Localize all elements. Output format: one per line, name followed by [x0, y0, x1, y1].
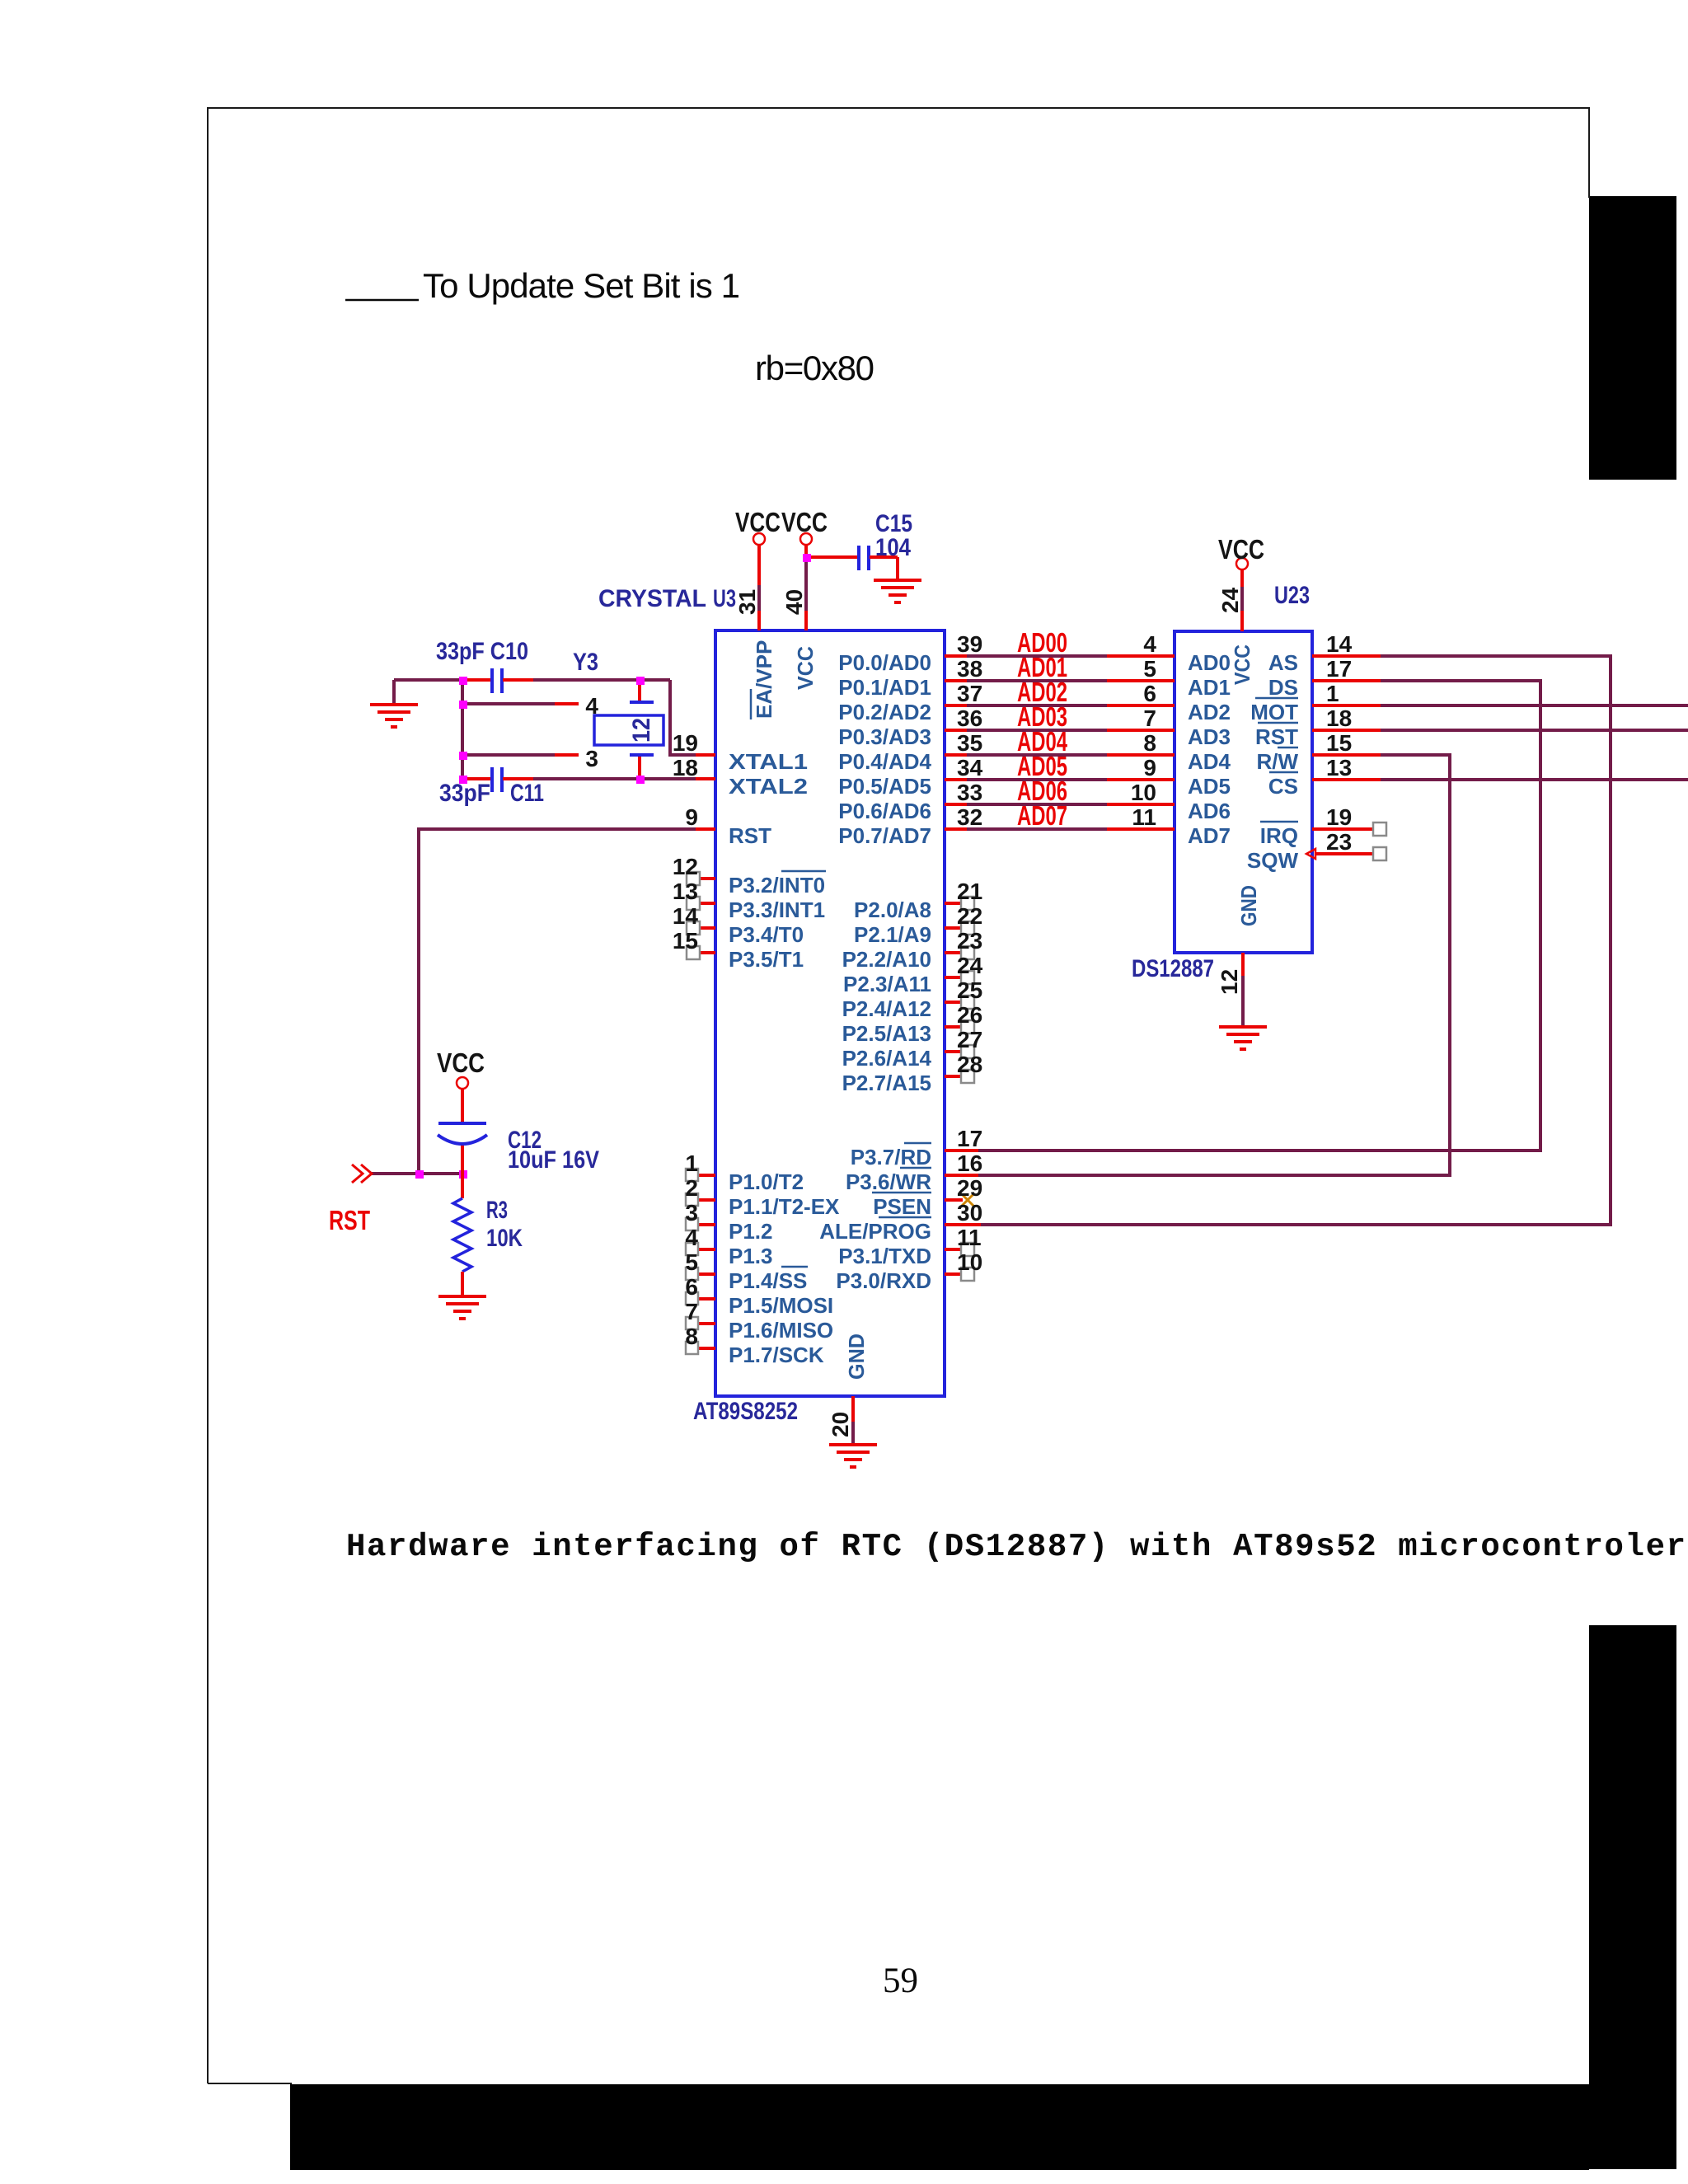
svg-text:EA/VPP: EA/VPP [752, 640, 776, 719]
svg-text:4: 4 [685, 1225, 698, 1250]
svg-text:PSEN: PSEN [873, 1194, 931, 1219]
svg-text:AD3: AD3 [1188, 724, 1231, 749]
svg-text:33pF C10: 33pF C10 [436, 638, 528, 665]
svg-text:VCC: VCC [735, 507, 781, 537]
svg-text:DS12887: DS12887 [1132, 955, 1214, 982]
svg-text:104: 104 [875, 534, 911, 561]
svg-text:13: 13 [673, 879, 698, 904]
svg-text:29: 29 [957, 1175, 982, 1201]
svg-text:XTAL2: XTAL2 [729, 774, 808, 799]
svg-text:VCC: VCC [1218, 534, 1264, 565]
svg-text:19: 19 [1326, 804, 1352, 830]
svg-text:P3.0/RXD: P3.0/RXD [836, 1268, 931, 1293]
svg-text:P0.2/AD2: P0.2/AD2 [838, 700, 931, 724]
svg-text:P2.1/A9: P2.1/A9 [854, 922, 931, 947]
svg-text:AT89S8252: AT89S8252 [693, 1398, 798, 1425]
svg-text:XTAL1: XTAL1 [729, 749, 808, 774]
svg-text:40: 40 [781, 589, 807, 615]
svg-text:4: 4 [1143, 631, 1156, 657]
svg-text:AD5: AD5 [1188, 774, 1231, 799]
svg-text:14: 14 [673, 903, 699, 929]
svg-text:GND: GND [1236, 885, 1261, 926]
svg-text:27: 27 [957, 1027, 982, 1052]
svg-text:SQW: SQW [1247, 848, 1299, 873]
svg-text:8: 8 [685, 1324, 698, 1349]
svg-text:30: 30 [957, 1200, 982, 1226]
svg-text:3: 3 [685, 1200, 698, 1226]
svg-text:Hardware interfacing of RTC (D: Hardware interfacing of RTC (DS12887) wi… [346, 1529, 1686, 1565]
svg-text:2: 2 [685, 1175, 698, 1201]
svg-text:7: 7 [685, 1299, 698, 1324]
svg-text:10: 10 [1131, 780, 1156, 805]
svg-text:20: 20 [828, 1412, 853, 1437]
svg-text:RST: RST [329, 1205, 370, 1235]
svg-text:37: 37 [957, 681, 982, 706]
svg-text:33pF: 33pF [439, 780, 490, 807]
svg-text:34: 34 [957, 755, 983, 780]
svg-text:P1.0/T2: P1.0/T2 [729, 1169, 804, 1194]
svg-text:P2.3/A11: P2.3/A11 [843, 972, 931, 996]
svg-text:P1.3: P1.3 [729, 1244, 773, 1268]
svg-text:17: 17 [1326, 656, 1352, 682]
svg-text:16: 16 [957, 1151, 982, 1176]
svg-text:VCC: VCC [437, 1047, 485, 1078]
svg-text:25: 25 [957, 977, 982, 1003]
svg-text:23: 23 [957, 928, 982, 954]
svg-text:P2.0/A8: P2.0/A8 [854, 898, 931, 922]
svg-text:17: 17 [957, 1126, 982, 1151]
svg-text:P1.5/MOSI: P1.5/MOSI [729, 1293, 833, 1318]
svg-text:10K: 10K [486, 1225, 523, 1252]
svg-text:P3.2/INT0: P3.2/INT0 [729, 873, 825, 898]
svg-text:6: 6 [1143, 681, 1156, 706]
svg-text:P0.0/AD0: P0.0/AD0 [838, 650, 931, 675]
svg-text:AD07: AD07 [1017, 800, 1067, 831]
svg-text:10uF 16V: 10uF 16V [508, 1146, 599, 1174]
svg-text:AD1: AD1 [1188, 675, 1231, 700]
svg-text:P0.3/AD3: P0.3/AD3 [838, 724, 931, 749]
svg-text:11: 11 [1132, 804, 1156, 830]
svg-text:12: 12 [673, 854, 698, 879]
svg-text:P3.1/TXD: P3.1/TXD [838, 1244, 931, 1268]
svg-text:DS: DS [1268, 675, 1298, 700]
svg-text:IRQ: IRQ [1260, 823, 1298, 848]
svg-text:GND: GND [844, 1333, 869, 1380]
svg-text:39: 39 [957, 631, 982, 657]
svg-text:24: 24 [1217, 587, 1243, 613]
svg-text:21: 21 [957, 879, 982, 904]
svg-text:R3: R3 [486, 1197, 508, 1224]
svg-text:12: 12 [1217, 969, 1242, 995]
svg-text:AD2: AD2 [1188, 700, 1231, 724]
svg-text:P3.5/T1: P3.5/T1 [729, 947, 804, 972]
svg-text:P2.2/A10: P2.2/A10 [842, 947, 931, 972]
svg-text:P1.1/T2-EX: P1.1/T2-EX [729, 1194, 840, 1219]
svg-text:RST: RST [1255, 724, 1298, 749]
svg-text:VCC: VCC [1230, 644, 1254, 685]
svg-text:P1.6/MISO: P1.6/MISO [729, 1318, 833, 1343]
svg-text:MOT: MOT [1250, 700, 1298, 724]
svg-text:P0.4/AD4: P0.4/AD4 [838, 749, 931, 774]
svg-text:15: 15 [673, 928, 698, 954]
svg-text:24: 24 [957, 953, 983, 978]
svg-text:ALE/PROG: ALE/PROG [819, 1219, 931, 1244]
svg-text:1: 1 [1326, 681, 1339, 706]
svg-text:AD7: AD7 [1188, 823, 1231, 848]
svg-text:19: 19 [673, 730, 698, 756]
svg-text:P3.7/RD: P3.7/RD [851, 1145, 931, 1169]
svg-text:35: 35 [957, 730, 982, 756]
svg-text:36: 36 [957, 705, 982, 731]
svg-text:C11: C11 [510, 780, 544, 807]
svg-text:3: 3 [585, 746, 598, 771]
svg-text:38: 38 [957, 656, 982, 682]
svg-text:P0.7/AD7: P0.7/AD7 [838, 823, 931, 848]
svg-text:32: 32 [957, 804, 982, 830]
svg-text:CRYSTAL: CRYSTAL [598, 585, 706, 612]
svg-text:9: 9 [685, 804, 698, 830]
svg-text:P0.5/AD5: P0.5/AD5 [838, 774, 931, 799]
svg-text:8: 8 [1143, 730, 1156, 756]
svg-text:1: 1 [685, 1151, 698, 1176]
svg-text:VCC: VCC [793, 646, 818, 690]
svg-text:23: 23 [1326, 829, 1352, 855]
svg-text:14: 14 [1326, 631, 1353, 657]
svg-text:To Update Set Bit is 1: To Update Set Bit is 1 [423, 266, 740, 305]
svg-text:U3: U3 [713, 585, 736, 612]
svg-text:5: 5 [1143, 656, 1156, 682]
svg-text:P3.6/WR: P3.6/WR [846, 1169, 931, 1194]
svg-text:6: 6 [685, 1274, 698, 1300]
svg-text:P2.5/A13: P2.5/A13 [842, 1021, 931, 1046]
svg-text:P3.3/INT1: P3.3/INT1 [729, 898, 825, 922]
svg-text:P2.6/A14: P2.6/A14 [842, 1046, 932, 1071]
svg-text:P1.2: P1.2 [729, 1219, 773, 1244]
svg-text:Y3: Y3 [573, 649, 598, 676]
svg-text:AS: AS [1268, 650, 1298, 675]
svg-text:26: 26 [957, 1002, 982, 1028]
svg-text:RST: RST [729, 823, 771, 848]
svg-text:9: 9 [1143, 755, 1156, 780]
svg-text:P0.6/AD6: P0.6/AD6 [838, 799, 931, 823]
svg-text:11: 11 [957, 1225, 982, 1250]
svg-text:12: 12 [628, 718, 655, 743]
svg-text:R/W: R/W [1256, 749, 1298, 774]
svg-text:P3.4/T0: P3.4/T0 [729, 922, 804, 947]
svg-text:59: 59 [883, 1961, 918, 2000]
svg-text:7: 7 [1143, 705, 1156, 731]
svg-text:13: 13 [1326, 755, 1352, 780]
svg-text:18: 18 [673, 755, 698, 780]
svg-text:P1.4/SS: P1.4/SS [729, 1268, 807, 1293]
svg-text:22: 22 [957, 903, 982, 929]
svg-text:AD0: AD0 [1188, 650, 1231, 675]
svg-text:5: 5 [685, 1249, 698, 1275]
svg-text:31: 31 [734, 589, 760, 615]
svg-text:U23: U23 [1274, 582, 1310, 609]
svg-text:15: 15 [1326, 730, 1352, 756]
svg-text:AD4: AD4 [1188, 749, 1231, 774]
svg-text:CS: CS [1268, 774, 1298, 799]
svg-text:18: 18 [1326, 705, 1352, 731]
svg-text:rb=0x80: rb=0x80 [755, 349, 874, 387]
svg-text:10: 10 [957, 1249, 982, 1275]
svg-text:P1.7/SCK: P1.7/SCK [729, 1343, 824, 1367]
svg-text:28: 28 [957, 1052, 982, 1077]
svg-text:33: 33 [957, 780, 982, 805]
svg-text:P2.4/A12: P2.4/A12 [842, 996, 931, 1021]
svg-text:VCC: VCC [781, 507, 828, 537]
svg-text:P0.1/AD1: P0.1/AD1 [838, 675, 931, 700]
svg-text:AD6: AD6 [1188, 799, 1231, 823]
svg-text:P2.7/A15: P2.7/A15 [842, 1071, 931, 1095]
